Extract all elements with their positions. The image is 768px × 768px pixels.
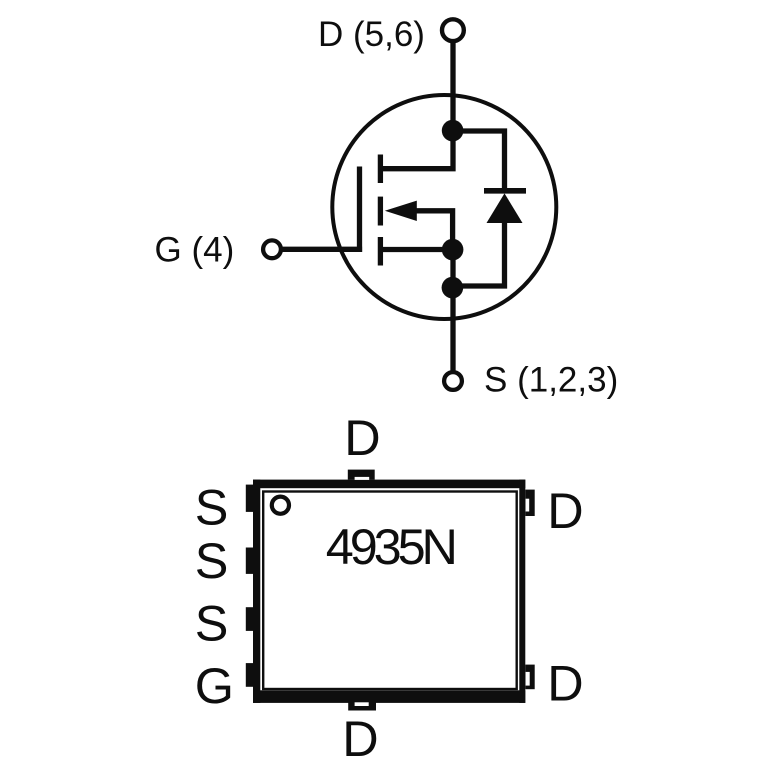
svg-text:G (4): G (4): [155, 230, 235, 269]
svg-text:G: G: [195, 657, 234, 714]
svg-text:D: D: [547, 655, 583, 712]
svg-text:S: S: [195, 594, 229, 651]
svg-text:D: D: [344, 409, 380, 466]
svg-text:4935N: 4935N: [326, 518, 458, 575]
svg-text:S: S: [195, 479, 229, 536]
svg-text:D (5,6): D (5,6): [318, 15, 425, 54]
svg-text:S (1,2,3): S (1,2,3): [484, 360, 618, 399]
svg-text:D: D: [547, 482, 583, 539]
svg-text:S: S: [195, 532, 229, 589]
svg-text:D: D: [342, 710, 378, 767]
